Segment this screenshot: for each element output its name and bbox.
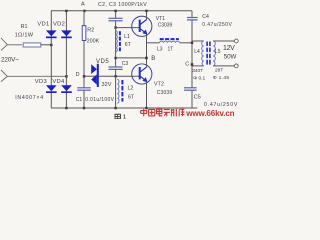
svg-text:340T: 340T: [192, 68, 203, 74]
figure label tu1: [115, 114, 120, 119]
junction dot C2 bottom / VT1 base node: [114, 26, 116, 28]
svg-text:VD5: VD5: [96, 59, 109, 65]
svg-text:50W: 50W: [224, 53, 237, 60]
wire VD2 column: [65, 11, 67, 108]
svg-text:R2: R2: [87, 28, 94, 34]
wire L5 top to output: [213, 40, 234, 42]
svg-text:IN4007×4: IN4007×4: [15, 95, 44, 101]
inductor L3 coil bumps: [160, 41, 180, 43]
svg-text:L3: L3: [157, 46, 163, 52]
inductor L1 core dashes: [119, 31, 121, 51]
svg-text:VD1: VD1: [37, 22, 49, 28]
inductor L2 core dashes: [121, 80, 123, 102]
wire mid column to node B: [116, 57, 147, 59]
inductor L5 coil bumps: [213, 41, 215, 66]
inductor L4 coil bumps: [202, 41, 204, 66]
svg-text:A: A: [81, 2, 85, 8]
wire D node to diac to VT2 base: [85, 75, 140, 77]
capacitor C1: [77, 77, 91, 108]
svg-text:1: 1: [123, 114, 126, 119]
junction dot C1 bottom rail: [83, 107, 85, 109]
svg-text:B: B: [151, 56, 155, 62]
svg-text:0.01u/100V: 0.01u/100V: [85, 97, 114, 103]
wire emitter node to L3: [147, 42, 160, 44]
svg-text:VT2: VT2: [154, 82, 164, 88]
svg-text:C3039: C3039: [158, 22, 173, 28]
svg-text:VT1: VT1: [156, 16, 165, 22]
inductor L3 core dashes: [160, 38, 179, 40]
svg-text:C5: C5: [194, 94, 201, 100]
node D junction dot: [83, 75, 86, 78]
wire VD1 column: [50, 11, 52, 108]
inductor L1 coil bumps: [116, 31, 118, 52]
VT1 collector: [140, 20, 146, 25]
diac VD5: [91, 64, 99, 87]
capacitor C4 with leads: [187, 11, 198, 88]
output terminal bottom: [234, 64, 238, 68]
wire mid column: [115, 28, 117, 67]
transformer core bars: [207, 42, 210, 65]
capacitor C2 with leads: [109, 11, 123, 28]
diode VD4: [61, 85, 72, 93]
node B junction dot: [145, 57, 148, 60]
svg-text:www.66kv.cn: www.66kv.cn: [185, 109, 234, 118]
wire L2 column: [115, 76, 117, 108]
VT1 emitter with arrow: [140, 29, 147, 35]
junction dot mid column / B wire: [114, 57, 116, 59]
svg-text:R1: R1: [21, 24, 28, 30]
node C junction dot: [191, 63, 194, 66]
svg-text:6T: 6T: [128, 95, 135, 101]
svg-text:L5: L5: [215, 49, 221, 55]
svg-text:32V: 32V: [102, 82, 112, 88]
junction dot L3/L4/C column: [191, 42, 193, 44]
svg-text:6T: 6T: [125, 42, 132, 48]
svg-text:220V~: 220V~: [1, 57, 19, 64]
svg-text:C: C: [185, 61, 189, 67]
wire L3 to C column: [180, 42, 193, 44]
svg-text:Φ 0.1: Φ 0.1: [193, 75, 205, 81]
svg-text:C3: C3: [122, 61, 129, 67]
resistor R2 with leads: [83, 11, 85, 26]
junction dot VT1 collector top rail: [145, 10, 147, 12]
VT2 collector: [140, 67, 146, 72]
svg-text:L1: L1: [124, 34, 130, 40]
svg-text:1T: 1T: [168, 46, 174, 52]
inductor L2 coil bumps: [117, 79, 119, 103]
transistor VT1 circle: [132, 16, 152, 36]
diode VD3: [46, 85, 57, 93]
svg-text:1Ω/1W: 1Ω/1W: [15, 33, 34, 39]
transformer T primary L4 stubs: [192, 40, 204, 42]
svg-text:200K: 200K: [87, 39, 100, 45]
node A junction dot: [83, 10, 85, 12]
VT1 base bar: [139, 20, 141, 32]
junction dot R1/VD1: [50, 44, 53, 47]
svg-text:C1: C1: [76, 97, 83, 103]
wire top rail: [51, 10, 192, 12]
junction dot VD2 top: [65, 10, 67, 12]
resistor R1: [23, 43, 41, 47]
svg-text:VD4: VD4: [52, 79, 65, 85]
svg-text:28T: 28T: [215, 68, 223, 74]
output terminal top: [234, 39, 238, 43]
diode VD1: [46, 30, 57, 38]
svg-text:C3039: C3039: [157, 90, 173, 96]
junction dot VT2 emitter bottom rail: [145, 107, 147, 109]
VT2 base bar: [139, 67, 141, 79]
wire R1 to bridge: [41, 44, 51, 46]
svg-text:D: D: [76, 72, 80, 78]
VT2 emitter with arrow: [140, 76, 147, 82]
junction dot C3 bottom / diac node: [114, 75, 116, 77]
junction dot VD4 column bottom rail: [65, 107, 67, 109]
svg-text:VD3: VD3: [35, 79, 47, 85]
svg-text:L4: L4: [194, 49, 200, 55]
wire C2 node to VT1 base: [116, 27, 140, 29]
svg-text:0.47u/250V: 0.47u/250V: [204, 102, 238, 108]
transistor VT2 circle: [132, 64, 152, 84]
svg-text:C2, C3 1000P/1kV: C2, C3 1000P/1kV: [98, 2, 147, 8]
capacitor C3: [109, 67, 123, 76]
wire bottom rail: [51, 107, 197, 109]
wire AC input upper fork: [1, 38, 22, 50]
svg-text:12V: 12V: [223, 45, 235, 52]
junction dot C2 top: [114, 10, 116, 12]
watermark chinese chars: [141, 109, 185, 117]
wire L5 bottom to output: [213, 65, 234, 67]
capacitor C5: [184, 88, 197, 108]
wire AC input lower fork: [1, 70, 66, 82]
svg-text:0.47u/250V: 0.47u/250V: [202, 22, 232, 28]
svg-text:Φ 1.45: Φ 1.45: [213, 75, 230, 81]
junction dot L2 column bottom rail: [114, 107, 116, 109]
junction dot AC lower / VD2-VD4 column: [65, 75, 68, 78]
diode VD2: [61, 30, 72, 38]
svg-text:C4: C4: [202, 14, 209, 20]
svg-text:VD2: VD2: [53, 22, 65, 28]
svg-text:L2: L2: [128, 86, 134, 92]
